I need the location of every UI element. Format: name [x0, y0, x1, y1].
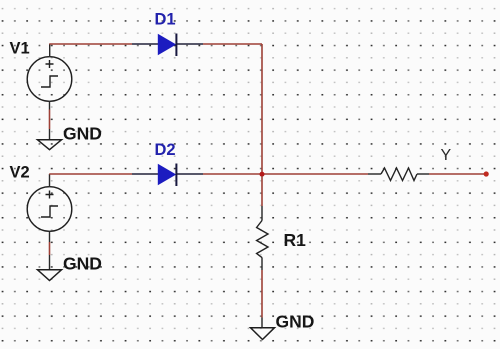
svg-text:D1: D1 — [155, 11, 176, 29]
voltage source V1 — [27, 57, 72, 102]
voltage source V2 — [27, 187, 72, 232]
wire — [203, 43, 262, 45]
wire — [49, 110, 51, 130]
wire — [49, 173, 132, 175]
wire — [49, 43, 132, 45]
wire — [49, 242, 51, 255]
svg-text:V1: V1 — [10, 40, 30, 58]
ground GND (bottom) — [251, 312, 315, 340]
svg-text:R1: R1 — [284, 230, 307, 250]
ground GND (V2) — [38, 254, 102, 281]
wire — [261, 44, 263, 174]
wire — [49, 174, 51, 187]
wire — [203, 173, 368, 175]
diode D2 — [132, 164, 203, 187]
wire — [49, 232, 51, 243]
wire — [429, 173, 486, 175]
wire — [261, 318, 263, 328]
svg-text:GND: GND — [276, 312, 315, 332]
svg-text:GND: GND — [63, 254, 102, 274]
resistor R1 — [257, 206, 268, 270]
ground GND (V1) — [38, 124, 102, 150]
svg-text:V2: V2 — [10, 164, 30, 182]
wire — [49, 255, 51, 270]
svg-text:D2: D2 — [155, 141, 176, 159]
wire — [261, 176, 263, 206]
svg-text:Y: Y — [441, 147, 452, 164]
svg-text:GND: GND — [63, 124, 102, 144]
resistor (output series) — [368, 168, 429, 181]
terminal dot (output Y) — [484, 171, 489, 176]
wire — [49, 129, 51, 140]
wire — [49, 101, 51, 110]
wire — [261, 270, 263, 318]
wire — [49, 44, 51, 57]
diode D1 — [132, 34, 203, 57]
junction node — [260, 172, 265, 177]
